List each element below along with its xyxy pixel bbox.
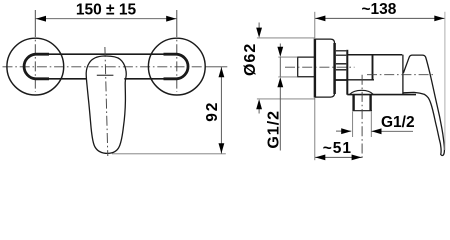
outlet nipple bottom edge — [352, 110, 372, 112]
dimension 92 top arrow — [219, 67, 225, 77]
flange thick left edge — [314, 39, 316, 98]
dimension G1/2 left bottom extension line — [278, 76, 297, 78]
body bar left cap — [24, 54, 49, 79]
dimension Ø62 lower segment — [258, 108, 260, 114]
dimension 92 bottom extension line — [112, 153, 226, 155]
flange (escutcheon side view) — [315, 39, 335, 97]
right escutcheon circle — [148, 38, 205, 95]
outlet wall extension lines — [353, 112, 372, 138]
dimension ~51 left extension line — [314, 98, 316, 160]
valve body right edge — [402, 55, 404, 94]
dimension Ø62 top extension line — [257, 37, 315, 39]
G1/2 right opposing arrow tail — [336, 130, 351, 132]
dimension G1/2 left line — [279, 44, 281, 151]
handle center cross tick — [97, 74, 114, 76]
svg-text:G1/2: G1/2 — [381, 114, 415, 131]
svg-text:92: 92 — [204, 101, 221, 122]
hex union nut horizontal edges — [336, 50, 346, 52]
svg-text:Ø62: Ø62 — [242, 43, 259, 76]
G1/2 right opposing arrow (points right at outlet) — [341, 128, 351, 134]
dimension 150±15 left arrow — [36, 16, 46, 22]
handle vertical centerline (slightly tilted) — [105, 47, 108, 156]
hex nut right edge / body junction — [346, 50, 348, 95]
lever handle side view — [403, 55, 444, 155]
dimension 150±15 right arrow — [166, 16, 176, 22]
body bar right cap — [164, 54, 189, 79]
dimension 150±15 line — [35, 18, 177, 20]
dimension Ø62 upper segment — [258, 23, 260, 30]
dimension 92 line — [220, 67, 222, 154]
G1/2 right callout arrow (points left at outlet) — [371, 128, 381, 134]
dimension ~138 left extension line — [314, 12, 316, 38]
body horizontal centerline (right) — [367, 74, 434, 76]
dimension 92 bottom arrow — [219, 143, 225, 153]
outlet nipple thick walls — [354, 95, 371, 111]
flange thick right edge — [333, 43, 336, 94]
svg-text:150 ± 15: 150 ± 15 — [76, 1, 137, 18]
dimension Ø62 lower arrow — [256, 99, 262, 109]
dimension Ø62 bottom extension line — [257, 98, 315, 100]
right circle vertical centerline / extension — [176, 10, 178, 92]
dimension G1/2 left top extension line — [278, 56, 297, 58]
side view: wall inlet stub — [298, 57, 315, 77]
front view horizontal centerline — [3, 66, 228, 68]
valve body bottom edge — [347, 94, 416, 96]
dimension ~138 line — [315, 17, 445, 19]
valve body recess line — [347, 79, 374, 81]
G1/2 right callout shelf — [371, 130, 413, 132]
hex union nut bottom edge — [335, 79, 347, 81]
dimension G1/2 left lower arrow — [277, 77, 283, 87]
svg-text:~51: ~51 — [323, 140, 352, 157]
svg-text:G1/2: G1/2 — [265, 110, 282, 149]
dimension Ø62 upper arrow — [256, 28, 262, 38]
outlet boss dome — [350, 90, 374, 94]
valve body top edge — [347, 54, 402, 56]
dimension ~51 line — [315, 156, 362, 158]
left circle vertical centerline / extension — [34, 10, 36, 92]
side view stub centerline — [285, 66, 355, 68]
valve body joint line — [372, 55, 374, 80]
dimension ~51 left arrow — [315, 155, 325, 161]
dimension ~138 left arrow — [315, 16, 325, 22]
body bar top edge — [35, 53, 177, 55]
left escutcheon circle — [7, 38, 64, 95]
dimension ~138 right arrow — [434, 16, 444, 22]
handle front silhouette — [86, 56, 126, 153]
outlet vertical centerline — [361, 75, 363, 160]
svg-text:~138: ~138 — [361, 1, 396, 18]
body bar bottom edge — [35, 78, 177, 80]
dimension G1/2 left upper arrow — [277, 47, 283, 57]
dimension ~51 right arrow — [352, 155, 362, 161]
dimension ~138 right extension line — [444, 12, 446, 150]
